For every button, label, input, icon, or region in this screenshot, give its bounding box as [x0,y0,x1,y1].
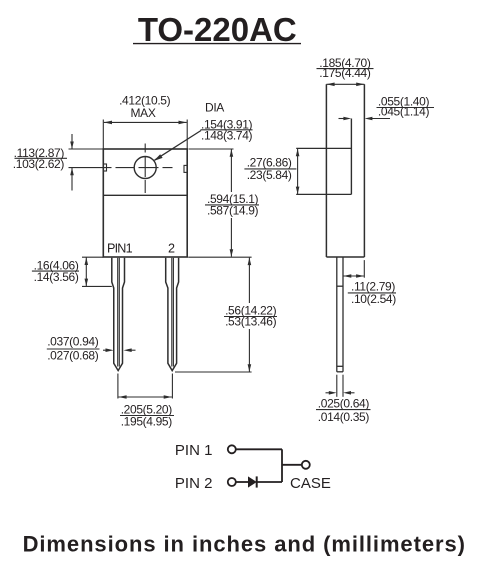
svg-text:.195(4.95): .195(4.95) [121,414,173,428]
vertical centerline [144,144,146,194]
front view body outline [103,149,187,257]
tab/body divider line [103,194,187,196]
lead 1 (left, front view) [112,258,125,371]
svg-text:.53(13.46): .53(13.46) [225,315,277,329]
svg-text:.103(2.62): .103(2.62) [13,157,65,171]
svg-text:.14(3.56): .14(3.56) [34,270,79,284]
svg-text:PIN 1: PIN 1 [175,442,213,459]
dimension DIA .154(3.91)/.148(3.74) hole [154,101,253,161]
dimension .037(0.94)/.027(0.68) lead width [47,335,136,363]
svg-text:2: 2 [168,242,175,256]
svg-text:.027(0.68): .027(0.68) [47,348,99,362]
lead 2 (right, front view) [166,258,179,371]
svg-text:.148(3.74): .148(3.74) [201,129,253,143]
svg-text:PIN 2: PIN 2 [175,475,213,492]
dimension .412(10.5) MAX top width [103,93,187,148]
svg-text:CASE: CASE [290,475,331,492]
svg-text:.045(1.14): .045(1.14) [378,105,430,119]
dimension .594(15.1)/.587(14.9) body height [189,149,260,257]
svg-text:MAX: MAX [131,106,156,120]
mounting hole [134,157,156,179]
dimension .11(2.79)/.10(2.54) lead offset [343,260,396,306]
dimension .56(14.22)/.53(13.46) lead length [175,257,277,372]
svg-text:Dimensions in inches and (mill: Dimensions in inches and (millimeters) [23,531,466,556]
svg-text:DIA: DIA [205,101,224,115]
dimension .113(2.87)/.103(2.62) hole offset [13,134,104,191]
dimension .27(6.86)/.23(5.84) hole region height [244,149,299,194]
svg-text:PIN1: PIN1 [107,242,133,256]
schematic wire: case branch [282,464,302,466]
svg-text:.10(2.54): .10(2.54) [351,292,396,306]
diode D1 [248,476,257,487]
schematic wire: right vertical [281,449,283,482]
schematic wire: pin2 to diode [236,481,248,483]
horizontal centerline [69,167,173,169]
svg-text:.23(5.84): .23(5.84) [247,168,292,182]
lead (side view) [337,257,343,372]
svg-text:.587(14.9): .587(14.9) [207,203,259,217]
svg-text:.025(0.64): .025(0.64) [318,397,370,411]
svg-text:TO-220AC: TO-220AC [138,11,297,48]
dimension .185(4.70)/.175(4.44) side width [317,56,374,86]
dimension .205(5.20)/.195(4.95) lead spacing [118,374,174,429]
right notch [184,165,187,172]
dimension .16(4.06)/.14(3.56) shoulder [32,257,112,286]
schematic: PIN 1 terminal circle [228,445,236,453]
schematic: CASE terminal circle [302,461,310,469]
schematic: PIN 2 terminal circle [228,478,236,486]
dimension .025(0.64)/.014(0.35) lead thickness [316,375,371,424]
left notch [103,164,106,171]
schematic wire: pin1 horizontal [236,448,282,450]
side view body outline [326,84,364,257]
svg-text:.037(0.94): .037(0.94) [47,335,99,349]
schematic wire: diode to vertical [257,481,282,483]
svg-text:.014(0.35): .014(0.35) [318,410,370,424]
dimension .055(1.40)/.045(1.14) tab thickness [339,95,435,121]
side view hole region step lines [296,148,351,194]
title TO-220AC [133,11,301,48]
side view tab inner edge [350,119,352,195]
svg-text:.175(4.44): .175(4.44) [319,66,371,80]
